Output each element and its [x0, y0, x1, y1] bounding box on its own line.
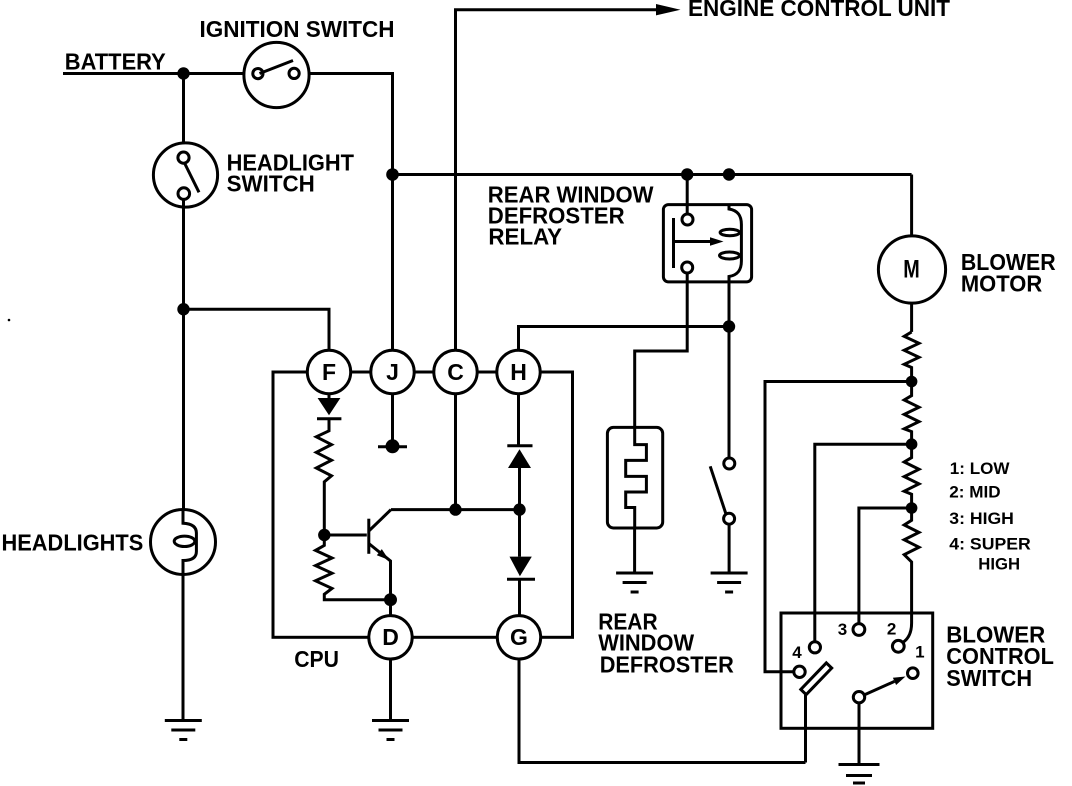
node battery junction — [177, 67, 189, 79]
node transistor base — [318, 529, 330, 541]
pin D — [369, 616, 412, 659]
svg-text:2: MID: 2: MID — [949, 483, 1000, 502]
wire pin J stub — [391, 394, 394, 441]
pin H — [497, 350, 540, 393]
wire pin G to wiper bus — [519, 659, 806, 763]
svg-text:SWITCH: SWITCH — [946, 665, 1032, 691]
svg-text:1: LOW: 1: LOW — [950, 459, 1011, 478]
headlights lamp L1 — [151, 510, 216, 575]
relay coil pin bottom circle — [682, 262, 693, 273]
wire tap high to terminal above 4 — [815, 444, 912, 641]
wire switch S3 to ground — [728, 524, 731, 573]
node tap mid — [906, 502, 918, 514]
wire ignition switch to pin J — [309, 74, 392, 351]
svg-text:ENGINE CONTROL UNIT: ENGINE CONTROL UNIT — [688, 0, 950, 21]
svg-text:BATTERY: BATTERY — [65, 49, 166, 75]
resistor R2 — [904, 382, 919, 445]
relay coil pin top circle — [682, 214, 693, 225]
node relay coil feed — [681, 168, 693, 180]
svg-text:MOTOR: MOTOR — [961, 271, 1043, 297]
svg-text:M: M — [903, 256, 920, 284]
ground CPU — [372, 721, 409, 740]
resistor R4 — [904, 508, 919, 612]
pin C — [434, 350, 477, 393]
node collector C — [449, 503, 461, 515]
node headlight branch — [177, 303, 189, 315]
terminal super high — [809, 642, 820, 653]
ground switch S3 — [711, 573, 748, 592]
wire branch node to pin F — [184, 309, 330, 350]
wire headlights to ground — [182, 575, 185, 721]
svg-text:J: J — [386, 359, 399, 385]
wire relay contact to switch S3 — [728, 282, 731, 458]
svg-text:HIGH: HIGH — [978, 555, 1020, 574]
wire battery feed — [63, 72, 244, 75]
svg-text:DEFROSTER: DEFROSTER — [600, 652, 734, 678]
speck — [8, 319, 11, 322]
svg-text:C: C — [447, 359, 464, 385]
svg-text:1: 1 — [915, 642, 924, 661]
diode D2 — [507, 557, 535, 580]
svg-text:IGNITION SWITCH: IGNITION SWITCH — [200, 16, 395, 42]
wire tap low to terminal 2 — [903, 612, 912, 643]
svg-text:4: 4 — [792, 643, 802, 662]
ignition switch SW1 — [244, 42, 309, 107]
arrow to ECU — [656, 4, 681, 15]
svg-text:F: F — [322, 359, 336, 385]
ground headlights — [165, 721, 202, 740]
pin J — [371, 350, 414, 393]
svg-text:RELAY: RELAY — [488, 223, 562, 249]
relay contact leaf curve — [729, 206, 741, 282]
pin G — [497, 616, 540, 659]
connector terminator pin J — [378, 439, 407, 453]
terminal 4 — [794, 666, 805, 677]
wire diode D2 to pin G — [518, 579, 521, 615]
svg-text:HEADLIGHTS: HEADLIGHTS — [2, 529, 144, 555]
transistor Q1 — [369, 510, 391, 600]
wire pin C to engine control unit — [456, 10, 657, 351]
rear window defroster element — [607, 427, 662, 528]
wire pin H internal — [517, 394, 520, 446]
node tap super high — [906, 376, 918, 388]
wire branch node to headlights — [182, 309, 185, 510]
ground blower switch — [839, 765, 880, 784]
svg-text:4: SUPER: 4: SUPER — [949, 534, 1031, 553]
node emitter — [384, 593, 397, 606]
terminal 3 — [853, 624, 865, 636]
diode D1 — [507, 446, 532, 468]
node main feed tap — [386, 168, 399, 181]
wire common to ground — [858, 703, 861, 765]
resistor R1 — [904, 332, 919, 382]
CPU box — [273, 372, 573, 637]
wire battery to headlight switch — [182, 74, 185, 144]
relay armature arrow — [674, 237, 724, 245]
svg-text:G: G — [510, 624, 528, 650]
blower motor M1 — [878, 236, 945, 303]
wire collector bus — [391, 508, 520, 511]
wire pin C internal — [454, 394, 457, 510]
wire tap mid to terminal 3 — [859, 508, 912, 624]
relay coil core bar — [672, 218, 675, 268]
terminal 1 — [908, 668, 919, 679]
relay contact pad lower — [720, 252, 740, 259]
svg-text:3: HIGH: 3: HIGH — [949, 509, 1014, 528]
wire tap super high to terminal 4 — [765, 382, 912, 672]
svg-text:SWITCH: SWITCH — [227, 170, 315, 196]
blower control switch box — [781, 613, 933, 728]
wire relay coil pin top — [686, 175, 689, 215]
resistor R3 — [904, 444, 919, 508]
switch S3 — [710, 458, 735, 524]
switch arm arrow — [865, 677, 906, 695]
relay contact pad upper — [720, 229, 739, 236]
wire diode D1 to collector node — [518, 468, 521, 557]
headlight switch SW2 — [153, 143, 217, 207]
pin F — [307, 350, 350, 393]
terminal common — [853, 692, 864, 703]
wire headlight switch to branch node — [182, 199, 185, 309]
wire defroster to ground — [633, 528, 636, 573]
wire pin H to relay contact — [519, 327, 730, 351]
resistor R5 — [316, 419, 331, 535]
wire base — [324, 534, 367, 537]
wire main feed bus — [393, 173, 912, 176]
wiper contact bar — [801, 663, 832, 695]
ground defroster — [616, 573, 653, 592]
node relay contact feed — [723, 168, 735, 180]
zener diode Z1 — [317, 394, 341, 419]
relay K1 box — [663, 205, 751, 282]
svg-text:2: 2 — [887, 619, 896, 638]
wire pin D to ground — [389, 659, 392, 721]
svg-text:D: D — [382, 624, 399, 650]
terminal 2 — [892, 640, 904, 652]
svg-text:3: 3 — [838, 620, 847, 639]
node relay contact branch — [723, 320, 735, 332]
wire motor to resistor chain — [910, 303, 913, 332]
node collector H — [513, 503, 525, 515]
resistor R6 — [316, 535, 391, 600]
svg-text:H: H — [510, 359, 527, 385]
wire wiper to bottom bus — [804, 695, 807, 763]
svg-text:CPU: CPU — [294, 646, 339, 672]
wire blower motor feed — [910, 175, 913, 237]
wire relay coil to defroster — [635, 273, 688, 428]
wire emitter to pin D — [389, 600, 392, 616]
node tap high — [906, 438, 918, 450]
